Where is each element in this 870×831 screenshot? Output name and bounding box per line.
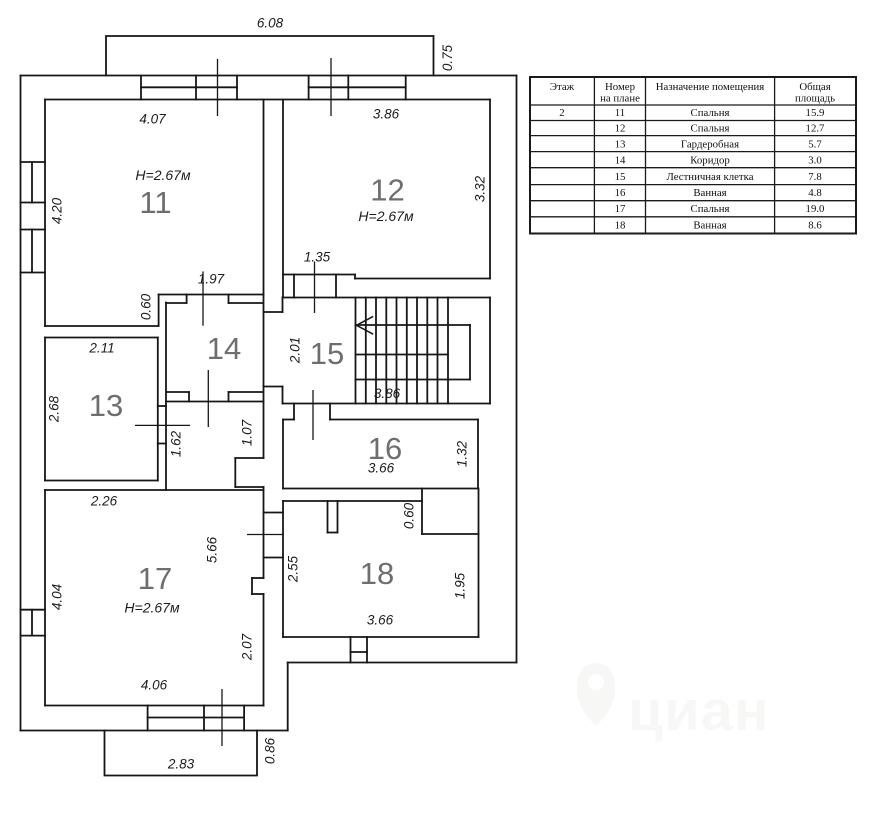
svg-text:14: 14: [207, 331, 241, 366]
svg-text:8.6: 8.6: [808, 220, 822, 232]
svg-text:5.7: 5.7: [808, 139, 822, 151]
svg-text:0.60: 0.60: [402, 502, 417, 529]
svg-text:циан: циан: [628, 679, 770, 743]
svg-text:Назначение помещения: Назначение помещения: [656, 81, 765, 93]
svg-text:11: 11: [139, 185, 171, 220]
svg-text:Лестничная клетка: Лестничная клетка: [666, 171, 753, 183]
svg-text:H=2.67м: H=2.67м: [135, 167, 191, 183]
svg-text:3.86: 3.86: [374, 386, 401, 401]
svg-text:2.26: 2.26: [90, 494, 118, 509]
svg-text:0.75: 0.75: [440, 44, 455, 71]
svg-text:H=2.67м: H=2.67м: [124, 600, 180, 616]
svg-text:1.32: 1.32: [455, 440, 470, 467]
svg-text:1.97: 1.97: [198, 272, 225, 287]
svg-text:5.66: 5.66: [205, 536, 220, 563]
svg-text:3.66: 3.66: [367, 613, 394, 628]
svg-text:17: 17: [138, 561, 172, 596]
svg-text:Этаж: Этаж: [550, 81, 575, 93]
svg-text:7.8: 7.8: [808, 171, 822, 183]
svg-text:Спальня: Спальня: [691, 107, 730, 119]
svg-text:2.01: 2.01: [288, 337, 303, 364]
svg-text:13: 13: [89, 388, 123, 423]
svg-text:4.20: 4.20: [50, 197, 65, 224]
svg-text:18: 18: [360, 556, 394, 591]
svg-text:11: 11: [615, 107, 625, 119]
svg-text:2: 2: [559, 107, 564, 119]
svg-text:на плане: на плане: [600, 93, 640, 105]
svg-text:Ванная: Ванная: [693, 220, 726, 232]
svg-text:0.60: 0.60: [139, 293, 154, 320]
svg-text:4.8: 4.8: [808, 187, 822, 199]
svg-text:13: 13: [615, 139, 626, 151]
svg-text:площадь: площадь: [795, 93, 835, 105]
svg-text:16: 16: [368, 431, 402, 466]
svg-text:12: 12: [615, 123, 626, 135]
svg-text:15.9: 15.9: [806, 107, 825, 119]
svg-text:H=2.67м: H=2.67м: [358, 208, 414, 224]
svg-text:Спальня: Спальня: [691, 203, 730, 215]
svg-text:4.07: 4.07: [139, 112, 166, 127]
svg-text:Общая: Общая: [799, 81, 830, 93]
svg-text:2.07: 2.07: [240, 633, 255, 661]
svg-text:4.04: 4.04: [50, 584, 65, 610]
svg-text:Коридор: Коридор: [690, 155, 730, 167]
svg-text:2.55: 2.55: [286, 555, 301, 583]
svg-text:2.68: 2.68: [47, 395, 62, 423]
svg-text:4.06: 4.06: [141, 678, 168, 693]
svg-text:1.62: 1.62: [169, 430, 184, 457]
svg-text:1.35: 1.35: [304, 250, 331, 265]
svg-text:Ванная: Ванная: [693, 187, 726, 199]
svg-text:6.08: 6.08: [257, 16, 284, 31]
svg-text:15: 15: [615, 171, 626, 183]
svg-text:15: 15: [310, 336, 344, 371]
svg-text:Спальня: Спальня: [691, 123, 730, 135]
svg-text:17: 17: [615, 203, 626, 215]
svg-text:16: 16: [615, 187, 626, 199]
svg-text:14: 14: [615, 155, 626, 167]
svg-text:18: 18: [615, 220, 626, 232]
svg-text:Номер: Номер: [605, 81, 635, 93]
svg-text:3.86: 3.86: [373, 107, 400, 122]
svg-text:2.83: 2.83: [167, 757, 195, 772]
svg-text:2.11: 2.11: [88, 341, 114, 356]
svg-text:12: 12: [370, 173, 404, 208]
svg-text:12.7: 12.7: [806, 123, 825, 135]
svg-text:3.0: 3.0: [808, 155, 822, 167]
svg-text:3.32: 3.32: [473, 175, 488, 202]
svg-text:1.95: 1.95: [453, 572, 468, 599]
svg-text:0.86: 0.86: [263, 737, 278, 764]
svg-text:Гардеробная: Гардеробная: [681, 139, 739, 151]
svg-text:19.0: 19.0: [806, 203, 825, 215]
svg-text:1.07: 1.07: [240, 419, 255, 446]
